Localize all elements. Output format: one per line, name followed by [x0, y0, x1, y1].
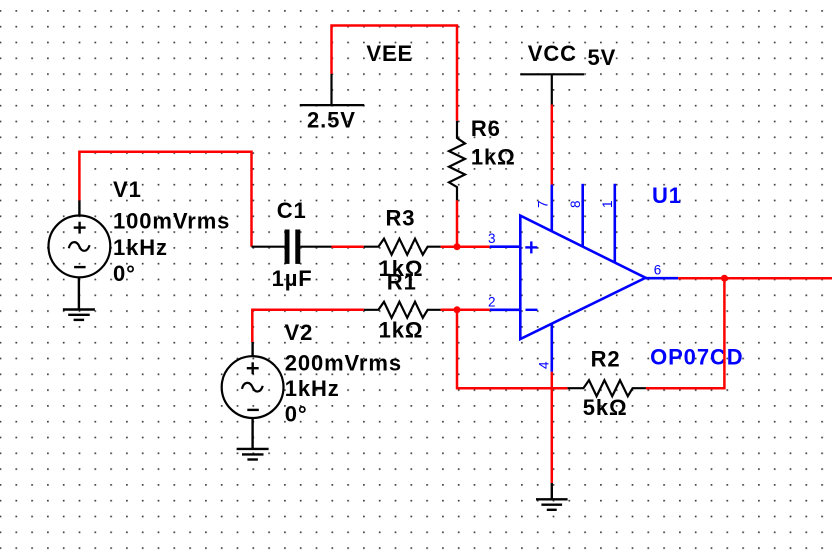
wire R1 to node B: [441, 309, 457, 312]
svg-text:1kΩ: 1kΩ: [379, 317, 424, 342]
pin 4 lead: [550, 324, 553, 372]
svg-text:OP07CD: OP07CD: [650, 345, 743, 370]
svg-text:2: 2: [488, 295, 496, 310]
AC source V1: [49, 200, 111, 309]
value V2: 200mVrms 1kHz 0deg: [285, 350, 402, 426]
svg-text:C1: C1: [277, 198, 307, 223]
svg-text:VCC: VCC: [528, 41, 577, 66]
svg-text:6: 6: [654, 263, 662, 278]
svg-text:VEE: VEE: [366, 41, 413, 66]
wire feedback node B down to R2: [457, 310, 568, 388]
svg-text:R1: R1: [387, 270, 417, 295]
svg-text:4: 4: [536, 361, 551, 369]
op-amp minus input mark: [526, 309, 538, 311]
wire V2 top to R1: [252, 310, 363, 342]
node C junction dot (output): [721, 275, 728, 282]
ground (V2): [237, 449, 269, 460]
svg-text:1kHz: 1kHz: [113, 235, 168, 260]
svg-text:V2: V2: [285, 320, 314, 345]
wire R6 to node A: [456, 200, 459, 246]
wire node B to pin 2: [457, 309, 490, 312]
value V1: 100mVrms 1kHz 0deg: [113, 209, 230, 287]
svg-text:3: 3: [488, 231, 496, 246]
svg-text:V1: V1: [113, 177, 142, 202]
wire R2 to output node: [646, 278, 725, 388]
node A junction dot: [454, 243, 461, 250]
op-amp U1 triangle: [520, 216, 645, 339]
svg-text:R2: R2: [591, 347, 621, 372]
svg-text:R6: R6: [471, 116, 501, 141]
resistor R1: [364, 302, 441, 318]
resistor R3: [364, 239, 441, 255]
pin 8 lead: [581, 184, 584, 247]
wire C1 to R3: [332, 245, 364, 248]
svg-text:5kΩ: 5kΩ: [583, 395, 628, 420]
svg-text:1kΩ: 1kΩ: [471, 145, 516, 170]
svg-text:7: 7: [536, 200, 551, 208]
wire pin 4 to ground: [551, 372, 554, 483]
resistor R2: [568, 380, 646, 396]
ground lead (pin 4): [551, 483, 553, 499]
wire node A to pin 3: [457, 245, 490, 248]
svg-text:1kHz: 1kHz: [285, 376, 340, 401]
AC source V2: [222, 342, 284, 449]
svg-text:100mVrms: 100mVrms: [113, 209, 230, 234]
svg-text:U1: U1: [652, 183, 682, 208]
svg-text:8: 8: [568, 200, 583, 208]
wire output to right edge: [678, 277, 832, 280]
pin 6 lead: [646, 277, 679, 280]
power symbol VEE 2.5V: [300, 74, 364, 105]
svg-text:R3: R3: [386, 205, 416, 230]
svg-text:1µF: 1µF: [272, 266, 313, 291]
ground (pin 4): [536, 499, 568, 510]
op-amp plus input mark: [525, 241, 537, 253]
resistor R6: [449, 121, 465, 200]
wire VEE net (top): [332, 26, 458, 121]
svg-text:2.5V: 2.5V: [307, 108, 356, 133]
pin 2 lead: [490, 308, 521, 311]
pin 7 lead: [550, 185, 553, 232]
node B junction dot: [454, 306, 461, 313]
svg-text:200mVrms: 200mVrms: [285, 350, 402, 375]
wire V1 top to C1 (net at top-left): [79, 152, 251, 247]
svg-text:0°: 0°: [113, 261, 136, 286]
pin 1 lead: [613, 184, 616, 263]
wire VCC to pin 7: [551, 105, 554, 185]
pin 3 lead: [490, 245, 521, 248]
power symbol VCC 5V: [520, 74, 584, 104]
svg-text:1: 1: [600, 200, 615, 208]
wire R3 to node A: [441, 245, 457, 248]
svg-text:0°: 0°: [285, 401, 308, 426]
capacitor C1: [252, 230, 332, 264]
svg-text:5V: 5V: [588, 45, 617, 70]
ground (V1): [63, 310, 95, 320]
